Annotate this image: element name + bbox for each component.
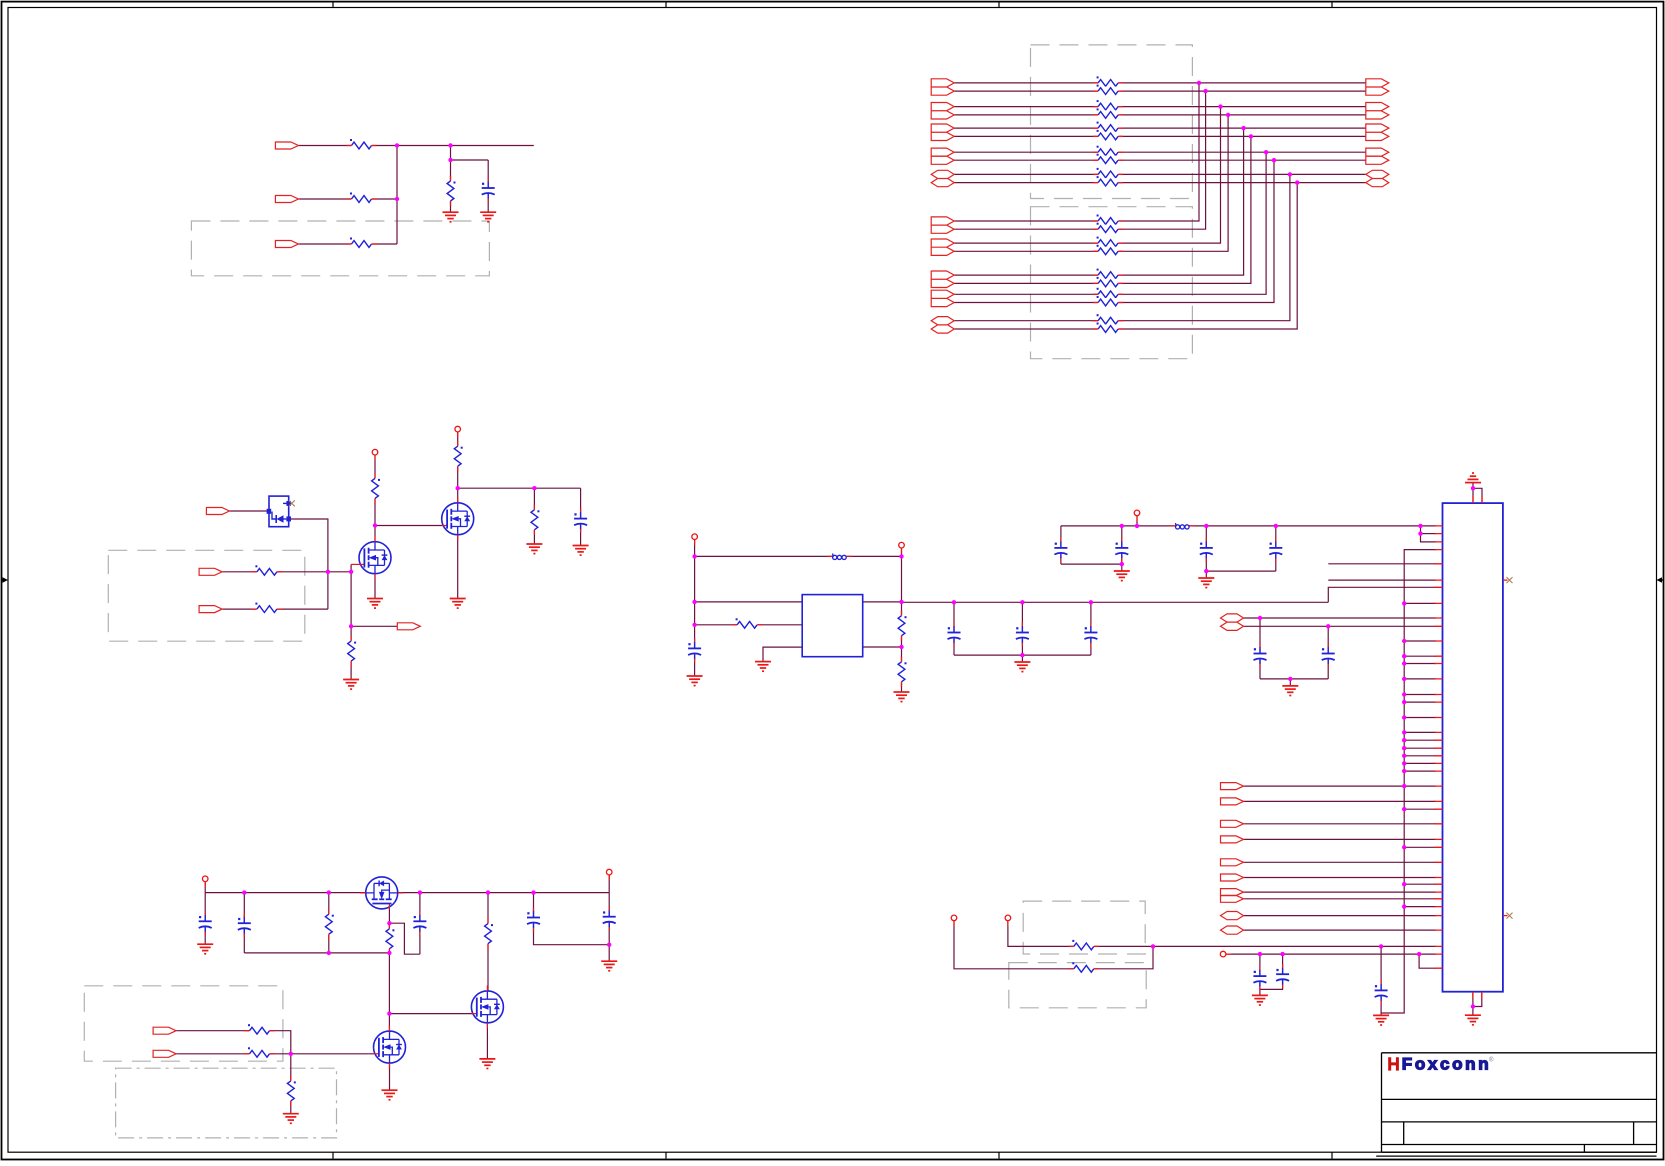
ground below C3 [687, 676, 703, 686]
wire ground bus tap y732.4 [1404, 731, 1436, 733]
port BIDIR1 [1221, 912, 1244, 920]
transistor Q5 [471, 985, 503, 1028]
port pair upper-right 5 bidirectional [1366, 170, 1389, 186]
junction output node [899, 600, 903, 604]
resistor RN10 (upper bus) [1093, 176, 1123, 187]
port EN1 [206, 508, 229, 515]
wire ground bus [1381, 550, 1436, 1013]
junction ground bus y847.3 [1402, 845, 1406, 849]
ground below Q2 [450, 599, 466, 609]
wire ground bus tap y641 [1404, 640, 1436, 642]
wire C8 ground stem [1121, 564, 1123, 571]
capacitor C5 [1015, 623, 1029, 647]
Foxconn logo H icon [1390, 1057, 1398, 1070]
transistor Q2 [442, 497, 474, 540]
junction node N1 row2 [395, 197, 399, 201]
ground below Q4 [382, 1090, 398, 1100]
wire C9 C10 ground link [1206, 570, 1276, 572]
wire bus upper line 9 [954, 173, 1366, 175]
ground below Q1 [367, 599, 383, 609]
junction C9 C10 ground node [1204, 569, 1208, 573]
wire C13 leg [1259, 954, 1261, 995]
wire C4 leg [953, 602, 955, 655]
ground below R9 [526, 544, 542, 554]
resistor R13 [897, 657, 907, 687]
wire U1 fb pin [863, 646, 902, 648]
resistor RM1 (lower bus) [1093, 215, 1123, 226]
capacitor C7 [1054, 538, 1068, 562]
wire C11 C12 ground link [1260, 678, 1328, 680]
resistor RM10 (lower bus) [1093, 323, 1123, 334]
junction ground bus port row [1402, 784, 1406, 788]
junction gate node [349, 570, 353, 574]
junction ground bus y656.2 [1402, 654, 1406, 658]
wire AUX step to pin [1419, 954, 1436, 968]
port SIG5 [1221, 859, 1244, 866]
capacitor C12 [1321, 644, 1335, 668]
junction drive node [387, 1011, 391, 1015]
wire bus upper line 5 [954, 127, 1366, 129]
junction 3V3 stub node [1135, 524, 1139, 528]
port pair lower-left 2 [931, 239, 954, 255]
junction C20 ground node [607, 943, 611, 947]
junction upper line 6 crossover [1249, 134, 1253, 138]
junction sense rail end [387, 951, 391, 955]
port CTL2 [153, 1050, 176, 1057]
resistor R6 [252, 603, 282, 614]
power stub VCC Q1 drain [372, 449, 378, 460]
port OUT1 [397, 623, 420, 630]
dashed group box (gate drive inputs) [108, 550, 304, 641]
junction C9 tap [1204, 524, 1208, 528]
junction upper line 10 crossover [1295, 180, 1299, 184]
resistor R11 [732, 618, 762, 629]
port pair lower-left 4 [931, 290, 954, 306]
left border centre arrow [2, 579, 4, 581]
wire hex pair line 2 [1244, 625, 1437, 627]
junction ground bus y641 [1402, 639, 1406, 643]
ground above J1 (inverted) [1465, 473, 1481, 483]
junction upper line 8 crossover [1272, 158, 1276, 162]
port IN2 [275, 196, 298, 203]
wire caps ground stem [1021, 655, 1023, 662]
resistor R9 [530, 505, 540, 535]
ground below U1 gnd pin [755, 662, 771, 672]
wire output rail [902, 601, 1329, 603]
junction C10 tap [1274, 524, 1278, 528]
no-connect X on D1 pin 3 [289, 500, 295, 506]
wire VBAT rail [205, 892, 609, 894]
ground below C1 [480, 212, 496, 222]
wire net stub row 563.8 [1328, 563, 1436, 565]
junction ground bus y906.6 [1402, 904, 1406, 908]
junction ground bus y740.2 [1402, 738, 1406, 742]
port SIG6 [1221, 874, 1244, 881]
junction upper line 3 crossover [1218, 104, 1222, 108]
port IN1 [275, 142, 298, 149]
ground below R10 [343, 680, 359, 690]
wire ground bus tap y656.2 [1404, 655, 1436, 657]
wire R16 leg [328, 893, 330, 953]
junction AUX step [1417, 952, 1421, 956]
top border zone ticks [333, 2, 1332, 8]
junction C4 tap [952, 600, 956, 604]
resistor RM9 (lower bus) [1093, 314, 1123, 325]
junction pullup node [1151, 944, 1155, 948]
junction C11 C12 ground node [1288, 677, 1292, 681]
wire C7 leg [1060, 526, 1062, 564]
wire ground bus tap y678.9 [1404, 678, 1436, 680]
wire bus upper line 6 [954, 135, 1366, 137]
wire bus upper line 7 [954, 151, 1366, 153]
wire node N2 branch [451, 146, 489, 161]
capacitor C13 [1253, 966, 1267, 990]
junction C19 tap [531, 890, 535, 894]
wire IN4 row [222, 571, 351, 573]
capacitor C8 [1115, 538, 1129, 562]
right border centre arrow [1662, 579, 1664, 581]
wire gate zigzag link [389, 923, 420, 954]
port SIG1 [1221, 783, 1244, 790]
ground below C16 [197, 944, 213, 954]
wire C15 leg [1380, 946, 1382, 1015]
ground below J1 [1465, 1015, 1481, 1025]
resistor R3 [347, 238, 377, 249]
capacitor C1 [481, 178, 495, 202]
wire ground bus tap y763.4 [1404, 762, 1436, 764]
junction node N2 [448, 143, 452, 147]
wire gate node column [350, 572, 352, 680]
resistor RM8 (lower bus) [1093, 296, 1123, 307]
port pair upper-left 4 [931, 148, 954, 164]
power stub SW rail [899, 542, 905, 553]
connector J1 top pin stubs [1473, 496, 1482, 503]
junction upper line 5 crossover [1241, 126, 1245, 130]
wire C18 leg [419, 893, 421, 955]
dashed group box (series resistors upper) [1031, 45, 1193, 199]
junction ground bus y678.9 [1402, 677, 1406, 681]
title block frame [1376, 1053, 1656, 1156]
wire bus lower line 10 with riser [954, 183, 1297, 329]
capacitor C2 [574, 509, 588, 533]
capacitor C9 [1199, 538, 1213, 562]
wire SIG4 row [1244, 838, 1437, 840]
wire bus lower line 3 with riser [954, 107, 1220, 244]
junction C8 tap [1120, 524, 1124, 528]
resistor RN3 (upper bus) [1093, 100, 1123, 111]
wire ground bus tap y717.5 [1404, 717, 1436, 719]
junction ground bus y702.1 [1402, 700, 1406, 704]
resistor R7 [371, 473, 381, 503]
wire SIG7b row [1244, 898, 1437, 900]
port pair upper-left 5 bidirectional [931, 170, 954, 186]
port SIG3 [1221, 820, 1244, 827]
ground below R13 [894, 692, 910, 702]
resistor RM4 (lower bus) [1093, 245, 1123, 256]
junction C12 tap [1326, 624, 1330, 628]
no-connect X right pin lower [1507, 913, 1513, 919]
wire C16 leg [204, 893, 206, 945]
wire ground bus tap y702.1 [1404, 701, 1436, 703]
port pair lower-left 3 [931, 271, 954, 288]
resistor RM6 (lower bus) [1093, 277, 1123, 288]
wire PU2 to connector row [1008, 918, 1436, 947]
port pair lower-left 5 bidirectional [931, 317, 954, 334]
junction ground bus y809.2 [1402, 807, 1406, 811]
wire C12 leg [1327, 626, 1329, 679]
wire IN1 row to node N2 [298, 145, 533, 147]
junction C11 tap [1258, 616, 1262, 620]
port pair lower-left 1 [931, 217, 954, 233]
port CTL1 [153, 1027, 176, 1034]
junction ground bus y663.5 [1402, 661, 1406, 665]
wire C19 leg [534, 893, 610, 945]
wire pins 2-3 tie riser [1421, 526, 1437, 542]
capacitor C10 [1269, 538, 1283, 562]
wire D1 out to riser [291, 519, 328, 609]
junction upper line 2 crossover [1203, 89, 1207, 93]
wire output caps ground rail [954, 654, 1091, 656]
wire ground bus tap y906.6 [1404, 906, 1436, 908]
port pair upper-right 3 [1366, 124, 1389, 141]
port pair upper-right 4 [1366, 148, 1389, 164]
dashed group box (pullups upper) [1023, 901, 1145, 954]
wire AUX row [1223, 953, 1436, 955]
resistor R18 [484, 919, 494, 949]
junction C5 tap [1020, 600, 1024, 604]
wire VIN column [694, 537, 696, 676]
power stub VIN [692, 534, 698, 545]
junction R11 node [692, 623, 696, 627]
resistor RN7 (upper bus) [1093, 146, 1123, 157]
junction pin1 tie [1418, 524, 1422, 528]
dashed group box (pullups lower) [1009, 963, 1146, 1008]
wire ground bus tap y755.8 [1404, 755, 1436, 757]
dash-dot group box (switch outputs) [116, 1068, 337, 1138]
junction J1 bottom ground [1471, 1004, 1475, 1008]
wire ground bus tap y694.5 [1404, 694, 1436, 696]
resistor R12 [897, 611, 907, 641]
dashed group box (top-left RC network) [191, 221, 489, 276]
wire SW column [901, 545, 903, 692]
junction C15 tap [1379, 944, 1383, 948]
svg-text:®: ® [1489, 1057, 1494, 1064]
ground below output caps [1014, 662, 1030, 672]
capacitor C20 [602, 907, 616, 931]
wire node to U1 pin 2 via R11 [695, 624, 803, 626]
junction node N2 lower [448, 158, 452, 162]
wire C7 C8 ground link [1061, 563, 1122, 565]
wire VBAT stub lead [204, 879, 206, 893]
dashed group box (switch inputs) [84, 986, 283, 1061]
junction pin2 tie [1418, 531, 1422, 535]
wire R9 leg [533, 488, 535, 544]
wire EN1 to D1 box [229, 510, 266, 512]
wire ground bus tap y847.3 [1404, 846, 1436, 848]
junction riser row2 [326, 570, 330, 574]
dual diode D1 package [267, 496, 291, 527]
power stub PU2 [1005, 915, 1011, 926]
wire C17 leg [243, 893, 245, 953]
capacitor C4 [947, 623, 961, 647]
capacitor C14 [1276, 964, 1290, 988]
ground below C11 C12 [1282, 686, 1298, 696]
wire Q4 source leg [389, 1063, 391, 1091]
wire PU1 to riser [954, 918, 1153, 969]
inductor L2 [1170, 523, 1194, 529]
port SIG4 [1221, 836, 1244, 843]
junction ground bus y748.2 [1402, 746, 1406, 750]
no-connect X right pin upper [1507, 577, 1513, 583]
port pair upper-right 2 [1366, 103, 1389, 120]
junction caps ground node [1020, 653, 1024, 657]
regulator U1 [802, 595, 863, 657]
wire bus lower line 8 with riser [954, 160, 1274, 302]
wire J1 bottom pin 1 [1472, 992, 1474, 1016]
junction J1 top ground [1471, 486, 1475, 490]
junction C18 tap [418, 890, 422, 894]
capacitor C16 [198, 911, 212, 935]
transistor Q1 [359, 536, 391, 579]
junction C14 tap [1280, 952, 1284, 956]
power stub PU1 [951, 915, 957, 926]
wire Q1 gate L-bend red [351, 563, 359, 565]
ground below C2 [573, 546, 589, 556]
wire bus upper line 8 [954, 159, 1366, 161]
ground below C9 [1198, 578, 1214, 588]
power stub VBAT [202, 876, 208, 887]
connector J1 body [1443, 503, 1503, 992]
wire CTL1 row [176, 1031, 291, 1054]
ground below Q5 [479, 1059, 495, 1069]
connector J1 left pin stubs [1435, 526, 1443, 968]
port SIG2 [1221, 798, 1244, 805]
junction C6 tap [1089, 600, 1093, 604]
port IN5 [199, 606, 222, 613]
wire 3V3 rail [1061, 525, 1436, 527]
port pair upper-left 1 [931, 79, 954, 95]
wire C11 leg [1259, 618, 1261, 679]
no-connect stub right upper [1503, 579, 1508, 581]
wire ground bus tap y663.5 [1404, 663, 1436, 665]
junction fb node [899, 645, 903, 649]
wire SIG6 row [1244, 877, 1437, 879]
wire J1 bottom pin 2 [1473, 992, 1482, 1007]
resistor RM5 (lower bus) [1093, 269, 1123, 280]
junction SW node [899, 554, 903, 558]
resistor RN5 (upper bus) [1093, 122, 1123, 133]
resistor RM7 (lower bus) [1093, 288, 1123, 299]
wire bus upper line 2 [954, 90, 1366, 92]
wire U1 out pin [863, 601, 902, 603]
junction upper line 1 crossover [1197, 81, 1201, 85]
wire drive node to Q5 gate [389, 1013, 472, 1015]
junction ground bus y771.1 [1402, 769, 1406, 773]
wire Q2 node branch [458, 487, 581, 489]
wire Q1 gate L-bend [350, 564, 352, 571]
wire 3V3 stub lead [1136, 513, 1138, 526]
wire CTL2 row to Q4 gate [176, 1053, 374, 1055]
port DATA bidirectional pair [1221, 614, 1244, 631]
resistor R5 [252, 565, 282, 576]
wire BIDIR2 row [1244, 929, 1437, 931]
junction ground bus y694.5 [1402, 692, 1406, 696]
wire bus lower line 6 with riser [954, 136, 1251, 283]
ground below C13 [1252, 995, 1268, 1005]
resistor R2 [347, 193, 377, 204]
junction node N1 [395, 143, 399, 147]
resistor R10 [347, 636, 357, 666]
wire bus lower line 4 with riser [954, 115, 1228, 251]
wire J1 top ground leads [1472, 483, 1474, 504]
ground below C15 [1373, 1015, 1389, 1025]
capacitor C19 [527, 908, 541, 932]
junction upper line 4 crossover [1226, 113, 1230, 117]
wire IN3 row [298, 243, 397, 245]
wire bus upper line 3 [954, 106, 1366, 108]
wire node N1 vertical [396, 146, 398, 245]
junction upper line 9 crossover [1288, 172, 1292, 176]
junction RC branch [532, 486, 536, 490]
resistor RM2 (lower bus) [1093, 223, 1123, 234]
junction output tee [349, 624, 353, 628]
wire C10 leg [1275, 526, 1277, 571]
wire C9 leg [1205, 526, 1207, 571]
junction ground bus y603.4 [1402, 601, 1406, 605]
power stub AUX [1220, 951, 1231, 957]
port pair upper-left 3 [931, 124, 954, 141]
wire ground bus tap y771.1 [1404, 770, 1436, 772]
wire sense rail [244, 952, 389, 954]
transistor Q4 [374, 1026, 406, 1069]
port IN4 [199, 568, 222, 575]
wire SIG5 row [1244, 861, 1437, 863]
resistor RN6 (upper bus) [1093, 130, 1123, 141]
wire ground bus tap y748.2 [1404, 747, 1436, 749]
resistor RN8 (upper bus) [1093, 154, 1123, 165]
resistor R8 [453, 441, 463, 471]
port IN3 [275, 241, 298, 248]
wire C2 leg [580, 488, 582, 545]
junction Q1 drain node [373, 523, 377, 527]
power stub VCC Q2 [455, 426, 461, 437]
wire IN2 row [298, 198, 397, 200]
ground below C8 [1114, 571, 1130, 581]
junction ground bus y884.2 [1402, 882, 1406, 886]
resistor R16 [324, 909, 334, 939]
junction ground bus y732.4 [1402, 730, 1406, 734]
wire SIG3 row [1244, 823, 1437, 825]
wire pin2 tie [1421, 533, 1437, 535]
resistor R19 [245, 1024, 275, 1035]
junction ground bus y755.8 [1402, 754, 1406, 758]
resistor R14 [1069, 940, 1099, 951]
resistor R1 [347, 139, 377, 150]
capacitor C15 [1374, 980, 1388, 1004]
resistor R4 [446, 176, 456, 206]
capacitor C3 [688, 638, 702, 662]
wire J1 top ground pin 2 [1473, 488, 1482, 503]
wire IN5 row [222, 608, 328, 610]
wire tee to port OUT1 [351, 625, 397, 627]
junction C7 C8 ground node [1120, 562, 1124, 566]
wire C14 leg [1260, 954, 1283, 989]
wire switched stub lead [608, 872, 610, 893]
junction Q2 drain node [456, 486, 460, 490]
wire U1 gnd pin to ground [763, 647, 802, 662]
junction R16 tap [327, 890, 331, 894]
wire Q1 drain to Q2 gate [375, 525, 442, 527]
